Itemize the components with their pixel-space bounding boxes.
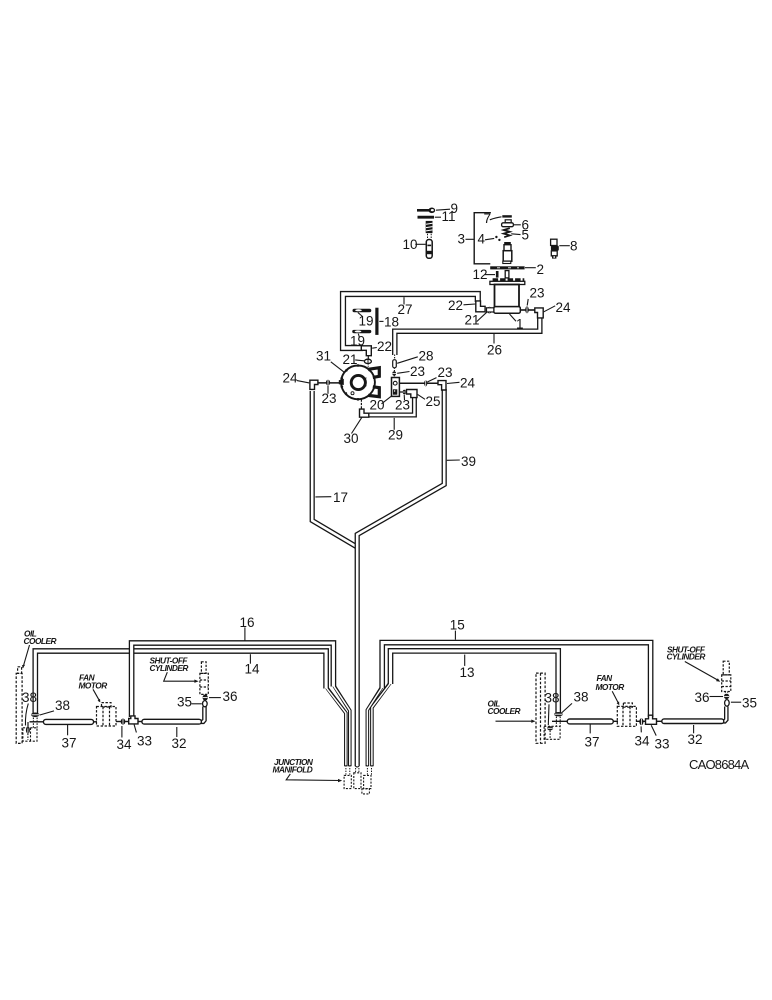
fan motor (left, dashed): [97, 703, 117, 726]
valve 20: [392, 378, 400, 397]
svg-text:MOTOR: MOTOR: [596, 682, 625, 692]
svg-text:28: 28: [419, 349, 434, 364]
leader 14: [249, 654, 251, 664]
svg-text:24: 24: [460, 376, 476, 391]
svg-text:COOLER: COOLER: [24, 636, 57, 646]
spring and pin 10: [426, 221, 433, 258]
pointer arrow: fan motor right: [612, 691, 619, 705]
svg-text:14: 14: [245, 662, 261, 677]
leader 1: [510, 314, 517, 321]
leader 17: [315, 496, 331, 498]
fitting 36 (right): [724, 694, 729, 699]
elbow 22 (at cylinder 1): [476, 301, 485, 312]
svg-text:33: 33: [137, 734, 152, 749]
valve body (part of valve assembly 3): [503, 242, 512, 264]
wire: valve 20 bottom to elbow 25: [399, 391, 408, 393]
hose 13 (lower right line, oil cooler to junction manifold): [372, 651, 558, 766]
nut 34 (left): [121, 719, 126, 725]
leader 11: [435, 216, 441, 218]
leader 28: [397, 357, 418, 364]
cylinder 1 flange hatch: [493, 278, 525, 281]
fitting 8: [551, 239, 559, 258]
svg-text:19: 19: [350, 334, 365, 349]
hose 17 (left hose from elbow 24 down to junction duct): [312, 391, 356, 547]
pin 12: [496, 271, 499, 278]
wire: pump left port line to elbow 24: [318, 382, 341, 384]
svg-text:21: 21: [343, 352, 358, 367]
svg-text:15: 15: [450, 618, 465, 633]
leader 36 left: [209, 697, 221, 699]
svg-text:34: 34: [635, 734, 651, 749]
spring 5: [504, 228, 510, 237]
leader 4: [485, 238, 494, 239]
svg-text:25: 25: [426, 394, 441, 409]
leader 22 pump: [372, 347, 377, 350]
pump right upper port: [368, 368, 379, 378]
svg-text:2: 2: [537, 262, 545, 277]
wire: shut-off cylinder right to fitting 36 (dotted): [725, 692, 727, 695]
svg-text:13: 13: [460, 665, 475, 680]
nut 38 (left lower, oil cooler inlet): [26, 726, 30, 733]
leader 3: [466, 238, 474, 240]
hose 37 (left, capsule): [43, 719, 93, 724]
washer 19 (lower): [352, 330, 371, 333]
leader 5: [511, 233, 520, 236]
svg-text:39: 39: [461, 454, 476, 469]
wire: fan motor right to tee 33 right (through nut 34): [636, 720, 647, 722]
oil cooler (left, dashed): [16, 667, 22, 744]
wire: valve 20 to right elbow 24: [399, 382, 439, 384]
leader 26: [493, 334, 495, 344]
shut-off cylinder (left, dashed): [200, 662, 208, 695]
hose 32 (right, capsule): [662, 719, 724, 724]
leader 23 left: [327, 386, 329, 394]
hose 14 (lower left line, oil cooler to junction manifold): [35, 651, 346, 766]
leader 36 right: [710, 696, 724, 698]
leader 33 left: [134, 725, 136, 733]
leader 35 right: [731, 701, 741, 703]
oil cooler inlet box (right, dashed): [544, 726, 560, 739]
leader 23 at 25: [403, 395, 405, 400]
cap nut 6: [502, 220, 514, 227]
leader 24 cylinder: [544, 306, 555, 312]
fitting 35 (right): [725, 700, 730, 707]
svg-text:10: 10: [403, 237, 418, 252]
pump left port: [339, 379, 344, 385]
svg-text:27: 27: [398, 302, 413, 317]
svg-text:MOTOR: MOTOR: [79, 681, 108, 691]
nut 38 (right, on hose 13 at oil cooler): [554, 712, 563, 716]
elbow 22 (at pump 31): [361, 346, 371, 356]
elbow 30: [360, 409, 369, 417]
svg-text:7: 7: [484, 211, 492, 226]
svg-text:24: 24: [283, 371, 299, 386]
nut 21 (at pump 31): [364, 359, 371, 363]
leader 6: [514, 224, 521, 226]
leader 9: [436, 209, 450, 210]
pointer arrow: shut-off cylinder left: [164, 672, 199, 683]
leader 33 right: [651, 725, 656, 735]
svg-text:36: 36: [223, 689, 238, 704]
bolt 9: [417, 208, 435, 214]
wire: pump bottom to elbow 30: [360, 400, 362, 410]
svg-text:23: 23: [395, 398, 410, 413]
elbow 24 (at cylinder 1): [535, 308, 543, 318]
nut 23 (below coupling 28): [392, 371, 396, 375]
hose 39 (right hose from elbow 24 down, merging into centre duct to manifold): [357, 389, 444, 766]
pointer arrow: fan motor left: [93, 689, 100, 702]
leader 34 right: [640, 726, 642, 732]
pointer arrow: shut-off cylinder right: [685, 662, 720, 682]
tee 33 (right): [646, 715, 657, 724]
svg-text:22: 22: [377, 339, 392, 354]
svg-text:19: 19: [359, 314, 374, 329]
elbow 25: [407, 390, 418, 398]
coupling 28: [393, 360, 397, 368]
svg-text:3: 3: [458, 232, 466, 247]
tube 26 (steel line from cylinder elbow 24 down to coupling 28): [395, 315, 540, 355]
svg-text:35: 35: [177, 695, 192, 710]
leader 18: [379, 320, 383, 322]
svg-text:5: 5: [522, 228, 530, 243]
svg-text:30: 30: [344, 431, 359, 446]
cylinder 1 left nipple: [487, 308, 494, 312]
svg-text:36: 36: [695, 690, 710, 705]
leader 35 left: [192, 703, 202, 705]
wire: nut 38 dashed tails (right side): [556, 717, 560, 727]
leader 23 at 28: [397, 372, 409, 374]
leader 19 lower: [358, 334, 359, 337]
hose 29 (pump elbow 30 to elbow 25): [366, 397, 414, 416]
leader 13: [464, 655, 466, 666]
nut 23 (left of pump): [326, 380, 330, 386]
fan motor (right, dashed): [617, 703, 636, 726]
leader 24 mid right: [447, 382, 460, 383]
leader 38 right first: [547, 704, 550, 725]
leader 19 upper: [358, 312, 363, 316]
fitting 35 (left): [203, 701, 208, 707]
svg-text:CYLINDER: CYLINDER: [150, 663, 189, 673]
leader 25: [418, 394, 425, 399]
nut 23 (at cylinder 1): [525, 306, 529, 313]
wire: shut-off cylinder left to fitting 36 (dotted): [204, 695, 206, 698]
leader 23 cylinder: [527, 299, 528, 306]
wire: oil cooler to hose 37 (right side): [552, 720, 569, 722]
wire: tube 26 end to coupling 28 (dotted): [394, 355, 396, 361]
manifold tube end caps: [345, 765, 373, 767]
pointer arrow: oil cooler right: [496, 720, 536, 723]
leader 7: [490, 217, 502, 220]
svg-text:32: 32: [688, 732, 703, 747]
retainer 7: [502, 215, 512, 217]
leader 30: [352, 417, 362, 433]
leader 16: [244, 627, 246, 640]
leader 2: [525, 267, 536, 269]
svg-text:35: 35: [742, 696, 757, 711]
svg-text:23: 23: [438, 365, 453, 380]
svg-text:29: 29: [388, 428, 403, 443]
oil cooler (right, dashed): [536, 673, 545, 743]
fitting 36 (left): [203, 695, 208, 701]
svg-text:1: 1: [516, 317, 524, 332]
pointer arrow: oil cooler left: [22, 645, 30, 668]
wire: tee 33 right to hose 32 right: [656, 720, 664, 722]
leader 23 mid: [427, 378, 436, 382]
svg-text:22: 22: [448, 298, 463, 313]
hose 16 (upper left line, fan-motor tee to junction manifold): [132, 643, 350, 766]
svg-text:31: 31: [316, 349, 331, 364]
cylinder 1 base: [494, 307, 521, 314]
leader 21 cylinder: [477, 312, 487, 322]
nut 21 (at cylinder 1): [487, 307, 491, 314]
svg-text:23: 23: [322, 391, 337, 406]
svg-text:CAO8684A: CAO8684A: [689, 757, 749, 772]
wire: hose 37 left end to oil cooler fitting (left): [30, 721, 45, 723]
cylinder stub: [505, 271, 509, 278]
wire: hose 37 right end to fan motor (left): [93, 721, 98, 723]
svg-text:33: 33: [655, 737, 670, 752]
washer 19 (upper): [353, 309, 372, 313]
svg-text:34: 34: [117, 737, 133, 752]
leader 38 left first: [25, 704, 28, 726]
svg-text:24: 24: [556, 300, 572, 315]
svg-text:16: 16: [240, 615, 255, 630]
elbow 24 (left, to hose 17): [310, 380, 318, 389]
bracket 3: [474, 213, 491, 264]
tube 27 (steel line from cylinder elbow 22 to pump elbow 22): [343, 294, 478, 348]
nut 34 (right): [639, 718, 643, 725]
hose 37 (right, capsule): [567, 719, 613, 724]
pin 18: [375, 308, 378, 335]
nut 23 (at elbow 25): [403, 390, 406, 395]
leader 38 right second: [561, 703, 572, 713]
svg-text:COOLER: COOLER: [488, 706, 521, 716]
leader 21 pump: [355, 359, 364, 362]
leader 12: [485, 274, 496, 276]
leader 27: [403, 297, 405, 304]
pointer arrow: junction manifold: [286, 774, 342, 782]
svg-text:18: 18: [384, 315, 399, 330]
svg-text:21: 21: [465, 313, 480, 328]
svg-text:17: 17: [333, 490, 348, 505]
nut 38 (right lower, oil cooler inlet): [547, 726, 553, 730]
leader 37 left: [67, 725, 69, 735]
leader 20: [382, 396, 392, 404]
svg-text:12: 12: [473, 267, 488, 282]
wire: coupling 28 to nut 23 to valve 20 (dotted): [393, 368, 395, 379]
nut 38 (left, on hose 14 at oil cooler): [31, 713, 39, 718]
svg-text:4: 4: [478, 232, 486, 247]
pump inner dots: [365, 378, 367, 388]
svg-text:37: 37: [585, 735, 600, 750]
shut-off cylinder (right, dashed): [722, 661, 731, 691]
leader 39: [447, 459, 460, 461]
leader 8: [559, 245, 570, 247]
elbow 24 (right, to hose 39): [438, 381, 446, 390]
wire: hose 37 right end to fan motor (right): [613, 720, 619, 722]
nut 23 (between valve 20 and elbow 24 right): [424, 380, 427, 386]
leader 32 left: [176, 727, 178, 737]
pump 31: [339, 364, 380, 400]
gasket 2: [490, 266, 524, 269]
svg-text:38: 38: [55, 698, 70, 713]
svg-text:32: 32: [172, 736, 187, 751]
wire: manifold port dotted connectors: [346, 768, 350, 775]
wire: fan motor left to tee 33 (through nut 34): [116, 721, 130, 723]
hose 32 (left, capsule): [142, 719, 202, 724]
svg-text:23: 23: [410, 364, 425, 379]
hose 32 left corner tube (up to fitting 35): [198, 707, 204, 722]
cylinder 1 flange: [490, 281, 525, 284]
pin 11: [418, 216, 435, 219]
svg-text:26: 26: [487, 343, 502, 358]
cylinder 1 body: [495, 285, 520, 307]
leader 22 cylinder: [464, 303, 476, 306]
leader 15: [454, 631, 456, 640]
svg-text:38: 38: [574, 690, 589, 705]
hose 32 right corner tube (up to fitting 35): [722, 707, 726, 722]
junction manifold (dashed): [344, 773, 371, 794]
leader 34 left: [121, 726, 123, 738]
svg-text:8: 8: [570, 239, 578, 254]
svg-text:11: 11: [442, 209, 456, 224]
wire: cylinder base right to nut 23 and elbow 24: [520, 309, 535, 311]
leader 37 right: [589, 725, 591, 734]
hose 15 (upper right line, fan-motor tee to junction manifold): [367, 643, 650, 767]
svg-text:23: 23: [530, 286, 545, 301]
wire: nut 38 lower-left dashed tails to oil cooler box (left): [33, 718, 37, 729]
leader 10: [415, 243, 425, 245]
balls 4: [495, 236, 500, 241]
svg-text:20: 20: [370, 398, 385, 413]
pump right lower port: [368, 387, 379, 397]
leader 38 left second: [40, 711, 54, 715]
svg-text:CYLINDER: CYLINDER: [667, 652, 706, 662]
tee 33 (left): [129, 716, 138, 724]
svg-text:37: 37: [62, 736, 77, 751]
svg-text:MANIFOLD: MANIFOLD: [273, 765, 313, 775]
leader 29: [393, 418, 395, 430]
leader 32 right: [693, 725, 695, 733]
oil cooler inlet box (left, dashed): [23, 728, 37, 741]
svg-text:38: 38: [545, 691, 560, 706]
leader 31: [331, 362, 345, 373]
svg-text:38: 38: [22, 690, 37, 705]
wire: elbow 22 stem to nut 21 to pump top (dotted): [367, 356, 369, 360]
wire: tee 33 to hose 32 (left): [138, 721, 144, 723]
leader 24 mid left: [297, 381, 309, 383]
